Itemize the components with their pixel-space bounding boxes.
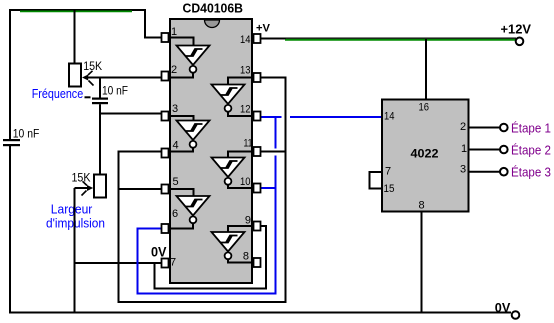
svg-text:10 nF: 10 nF [13, 127, 40, 141]
svg-text:9: 9 [245, 215, 251, 227]
wire: blue net pin12 output stub [261, 116, 282, 118]
svg-text:Étape 2: Étape 2 [511, 143, 551, 158]
pin 2 square [162, 72, 169, 81]
svg-text:Étape 1: Étape 1 [511, 120, 551, 135]
IC U1 notch [205, 20, 220, 28]
svg-text:+V: +V [256, 23, 271, 35]
pin 6 square [162, 224, 169, 233]
wire: blue bottom loop to pin 6 [138, 229, 277, 294]
wire: node C2 bottom to pin 3 [99, 113, 162, 115]
svg-text:15K: 15K [72, 173, 91, 185]
pin 8 square [254, 258, 261, 267]
inverter U1D pins 11-10 [212, 152, 254, 189]
wire: 4022 pin 3 to Etape 3 [469, 171, 500, 173]
potentiometer P2 15K (Largeur d'impulsion) [82, 175, 107, 198]
inverter U1E pins 5-6 [162, 189, 210, 229]
svg-text:15K: 15K [83, 61, 102, 73]
inverter U1C pins 3-4 [162, 116, 210, 152]
wire: branch pin11 to pin13 net [260, 151, 287, 153]
wire: blue branch to pin 10 [260, 187, 277, 189]
wire: 4022 pin 2 to Etape 1 [469, 127, 500, 129]
svg-text:CD40106B: CD40106B [183, 1, 244, 16]
pin 3 square [162, 112, 169, 121]
svg-text:11: 11 [244, 138, 253, 150]
svg-text:14: 14 [240, 34, 251, 46]
pin 10 square [254, 184, 261, 193]
IC U2 4022 body [382, 100, 469, 212]
svg-text:13: 13 [240, 65, 251, 77]
wire: left rail upper [9, 9, 11, 139]
inverter U1F pins 9-8 [212, 226, 254, 263]
capacitor C2 10nF (frequency cap) [92, 78, 108, 115]
wire: branch pin5 from pin4 net [118, 188, 163, 190]
svg-text:16: 16 [419, 102, 430, 114]
pin 13 square [254, 73, 261, 82]
capacitor C1 10nF plates [3, 139, 20, 146]
terminal +12V [516, 38, 524, 46]
svg-text:3: 3 [460, 163, 466, 175]
wire: 4022 pin 1 to Etape 2 [469, 149, 500, 151]
wire: ground loop pin7 to pin9 (U1 loop) [155, 226, 267, 289]
wire: +V pin14 to +12V (black thin + green) [285, 37, 516, 39]
svg-text:3: 3 [172, 103, 178, 115]
wire: blue vertical upper segment [275, 116, 277, 149]
svg-text:15: 15 [384, 183, 395, 195]
pin 4 square [162, 149, 169, 158]
pin numbers U1 right [240, 34, 253, 263]
wire: P2 wiper down to 0V rail [74, 188, 76, 313]
pin 12 square [254, 112, 261, 121]
svg-text:8: 8 [419, 200, 425, 212]
wire: blue vertical lower segment (gap at pin11 wire) [275, 156, 277, 295]
wire: bottom 0V rail [9, 312, 511, 314]
svg-text:1: 1 [171, 26, 177, 38]
pin squares left column U1 [162, 33, 169, 268]
svg-text:2: 2 [460, 121, 466, 133]
svg-text:5: 5 [173, 176, 179, 188]
svg-text:Étape 3: Étape 3 [511, 165, 551, 180]
inverter U1B pins 13-12 [212, 78, 254, 117]
label Largeur d'impulsion (blue) [46, 202, 105, 231]
wire: node down to pot P2 top [99, 114, 101, 176]
wire: top rail black (pin1 feedback loop) [10, 10, 162, 38]
pin 9 square [254, 222, 261, 231]
svg-text:0V: 0V [495, 300, 511, 315]
terminal 0V bottom right [512, 311, 520, 319]
svg-text:Fréquence: Fréquence [32, 86, 83, 101]
wire: 4022 pin8 to 0V rail [421, 212, 423, 313]
wire: +V pin14 to +12V (black part) [261, 38, 286, 40]
wire: pin13 net right vertical down and around to pin4/pin5 [119, 78, 286, 303]
pin 1 square [162, 33, 169, 42]
pin 14 square [254, 34, 261, 43]
svg-text:14: 14 [384, 111, 395, 123]
svg-text:10 nF: 10 nF [102, 84, 128, 98]
potentiometer P1 15K (Frequence) [69, 64, 94, 87]
svg-text:8: 8 [243, 251, 249, 263]
pin 7 square [162, 259, 169, 268]
wire: blue line to 4022 pin 14 [290, 116, 383, 118]
wire: 0V to pin 7 [75, 262, 163, 264]
svg-text:7: 7 [385, 165, 391, 177]
inverter U1A pins 1-2 [162, 38, 210, 78]
wire: P2 wiper lead [75, 187, 88, 189]
pin 5 square [162, 185, 169, 194]
terminal Etape 2 [500, 146, 508, 154]
pin squares right column U1 [254, 34, 261, 267]
svg-text:Largeur: Largeur [51, 202, 93, 217]
wire: link pins 7-15 of 4022 [370, 172, 383, 189]
svg-text:2: 2 [171, 64, 177, 76]
IC U1 CD40106B body [170, 19, 252, 283]
terminal Etape 3 [500, 168, 508, 176]
pin numbers U1 left [170, 26, 179, 269]
wire: left rail lower [9, 146, 11, 314]
svg-text:4022: 4022 [411, 147, 439, 161]
pin 11 square [254, 147, 261, 156]
wire: +V green top rail [20, 10, 132, 12]
svg-text:10: 10 [240, 176, 251, 188]
svg-text:1: 1 [461, 143, 467, 155]
tick mark after Frequence label [85, 96, 91, 98]
wire: P1 wiper to pin 2 [87, 77, 162, 79]
svg-text:12: 12 [240, 104, 251, 116]
svg-text:6: 6 [172, 208, 178, 220]
svg-text:0V: 0V [151, 244, 167, 260]
wire: 4022 pin16 to +12V rail [425, 39, 427, 99]
terminal Etape 1 [500, 124, 508, 132]
svg-text:+12V: +12V [501, 22, 532, 37]
svg-text:4: 4 [173, 140, 179, 152]
wire: pot P1 top stub from +V rail [74, 11, 76, 65]
svg-text:7: 7 [170, 257, 176, 269]
